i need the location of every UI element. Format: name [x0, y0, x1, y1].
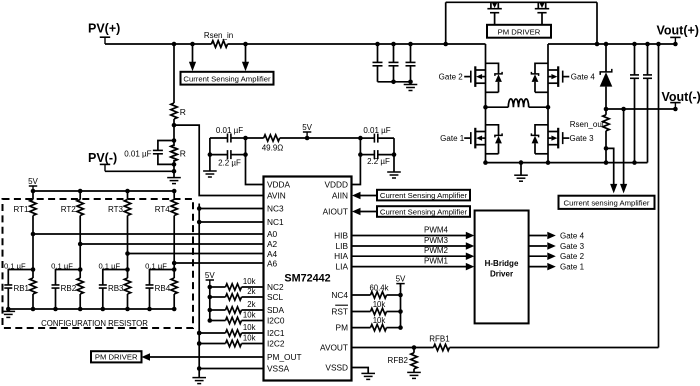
svg-text:R: R [180, 149, 186, 159]
svg-text:HIA: HIA [334, 251, 348, 261]
svg-text:A6: A6 [267, 259, 278, 269]
svg-text:I2C2: I2C2 [267, 339, 285, 349]
svg-text:10k: 10k [243, 311, 256, 320]
svg-text:PWM4: PWM4 [424, 225, 449, 234]
svg-text:10k: 10k [373, 316, 386, 325]
svg-text:SCL: SCL [267, 292, 284, 302]
svg-text:AVOUT: AVOUT [320, 343, 348, 353]
svg-text:CONFIGURATION RESISTOR: CONFIGURATION RESISTOR [41, 319, 148, 328]
svg-text:RB2: RB2 [61, 284, 77, 293]
svg-text:AIOUT: AIOUT [323, 207, 348, 217]
svg-text:VDDA: VDDA [267, 180, 291, 190]
svg-text:VSSD: VSSD [325, 363, 348, 373]
svg-text:2k: 2k [247, 300, 255, 309]
svg-text:0.01 µF: 0.01 µF [124, 150, 151, 159]
svg-text:Driver: Driver [490, 270, 513, 279]
svg-text:10k: 10k [243, 334, 256, 343]
svg-text:PM DRIVER: PM DRIVER [498, 28, 541, 37]
svg-text:PWM1: PWM1 [424, 256, 449, 265]
svg-text:RFB1: RFB1 [429, 335, 450, 344]
svg-text:RB1: RB1 [13, 284, 29, 293]
svg-text:0.1 µF: 0.1 µF [98, 261, 120, 270]
svg-text:Rsen_out: Rsen_out [570, 120, 605, 129]
svg-text:Gate 2: Gate 2 [439, 73, 464, 82]
svg-text:0.01 µF: 0.01 µF [363, 126, 390, 135]
svg-text:49.9Ω: 49.9Ω [262, 144, 284, 153]
svg-text:Gate 2: Gate 2 [560, 252, 585, 261]
svg-text:NC4: NC4 [331, 290, 348, 300]
svg-text:Gate 4: Gate 4 [571, 73, 596, 82]
svg-text:RT1: RT1 [14, 205, 30, 214]
svg-text:RB3: RB3 [108, 284, 124, 293]
svg-text:5V: 5V [28, 177, 38, 186]
svg-text:A4: A4 [267, 249, 278, 259]
svg-text:PM DRIVER: PM DRIVER [95, 353, 138, 362]
svg-text:R: R [180, 107, 186, 117]
svg-text:10k: 10k [243, 277, 256, 286]
svg-text:Vout(-): Vout(-) [662, 90, 700, 104]
svg-text:0.1 µF: 0.1 µF [145, 261, 167, 270]
svg-text:PM_OUT: PM_OUT [267, 352, 302, 362]
svg-text:LIA: LIA [336, 262, 349, 272]
svg-text:PWM2: PWM2 [424, 246, 449, 255]
svg-text:NC3: NC3 [267, 204, 284, 214]
svg-text:RFB2: RFB2 [388, 356, 409, 365]
svg-text:Current sensing Amplifier: Current sensing Amplifier [564, 199, 650, 208]
svg-text:5V: 5V [302, 123, 312, 132]
svg-text:2k: 2k [247, 287, 255, 296]
svg-text:PM: PM [336, 323, 349, 333]
svg-text:PWM3: PWM3 [424, 236, 449, 245]
svg-text:SM72442: SM72442 [284, 272, 330, 284]
svg-text:RB4: RB4 [155, 284, 171, 293]
svg-text:Gate 1: Gate 1 [560, 262, 585, 271]
svg-text:Gate 1: Gate 1 [440, 134, 465, 143]
svg-text:AIIN: AIIN [332, 191, 348, 201]
svg-text:5V: 5V [396, 274, 406, 283]
svg-text:LIB: LIB [336, 241, 349, 251]
svg-text:0.1 µF: 0.1 µF [51, 261, 73, 270]
svg-text:SDA: SDA [267, 305, 285, 315]
svg-text:I2C0: I2C0 [267, 316, 285, 326]
svg-text:VSSA: VSSA [267, 364, 290, 374]
svg-text:PV(+): PV(+) [88, 22, 120, 36]
svg-text:5V: 5V [205, 271, 215, 280]
svg-text:I2C1: I2C1 [267, 328, 285, 338]
svg-text:NC1: NC1 [267, 217, 284, 227]
svg-text:RT4: RT4 [155, 205, 171, 214]
svg-text:Current Sensing Amplifier: Current Sensing Amplifier [183, 75, 271, 84]
svg-text:Gate 4: Gate 4 [560, 231, 585, 240]
svg-text:A2: A2 [267, 239, 278, 249]
svg-text:RT2: RT2 [61, 205, 77, 214]
svg-text:H-Bridge: H-Bridge [485, 259, 519, 268]
svg-text:2.2 µF: 2.2 µF [218, 158, 241, 167]
svg-text:Vout(+): Vout(+) [657, 23, 699, 37]
svg-text:RST: RST [331, 307, 348, 317]
svg-text:A0: A0 [267, 229, 278, 239]
svg-text:0.01 µF: 0.01 µF [216, 126, 243, 135]
svg-text:RT3: RT3 [108, 205, 124, 214]
svg-text:2.2 µF: 2.2 µF [367, 157, 390, 166]
svg-text:PV(-): PV(-) [88, 151, 117, 165]
svg-text:10k: 10k [243, 323, 256, 332]
svg-text:Current Sensing Amplifier: Current Sensing Amplifier [380, 191, 468, 200]
svg-text:Current Sensing Amplifier: Current Sensing Amplifier [380, 207, 468, 216]
svg-text:60.4k: 60.4k [369, 284, 388, 293]
svg-text:Rsen_in: Rsen_in [204, 31, 233, 40]
svg-text:10k: 10k [373, 300, 386, 309]
svg-text:Gate 3: Gate 3 [560, 242, 585, 251]
svg-text:0.1 µF: 0.1 µF [4, 261, 26, 270]
svg-text:NC2: NC2 [267, 282, 284, 292]
svg-text:HIB: HIB [334, 231, 348, 241]
svg-text:Gate 3: Gate 3 [570, 134, 595, 143]
svg-text:AVIN: AVIN [267, 191, 286, 201]
svg-text:VDDD: VDDD [324, 180, 348, 190]
